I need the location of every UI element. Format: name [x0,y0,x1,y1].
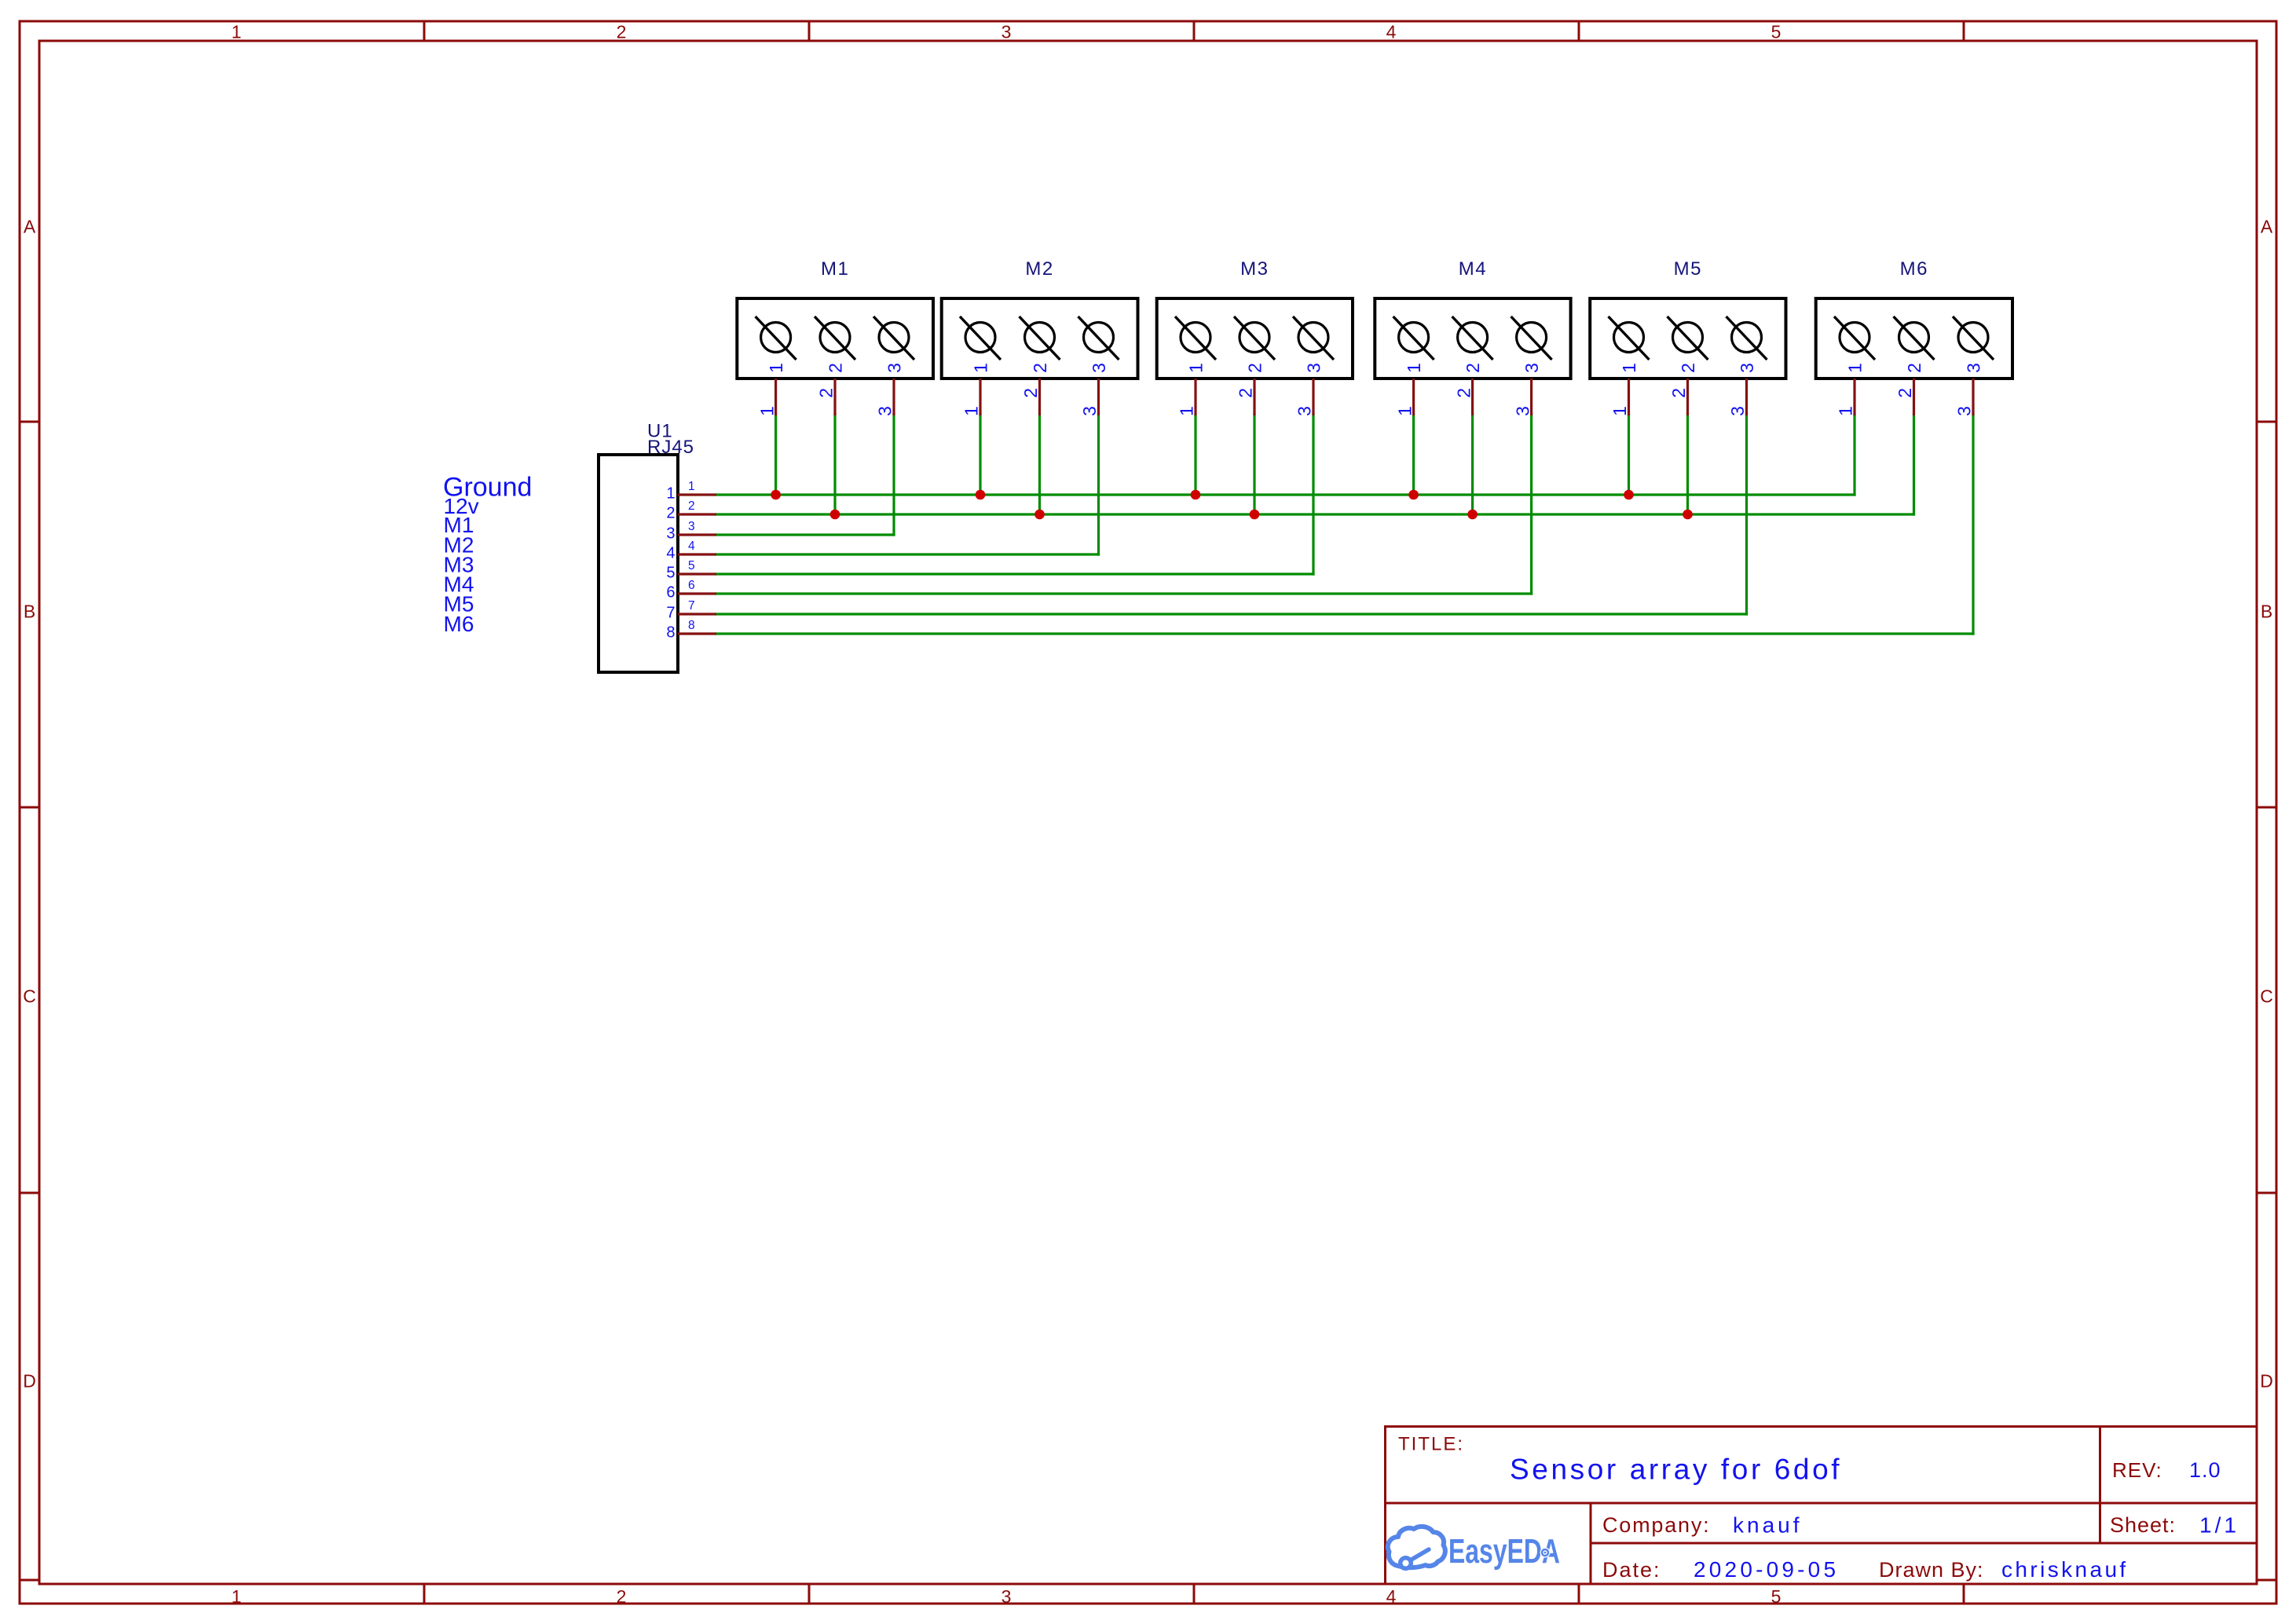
M1 pin 2 stub [833,379,836,415]
connector M3 body [1157,298,1353,379]
svg-text:chrisknauf: chrisknauf [2001,1557,2129,1582]
connector M6 body [1816,298,2012,379]
svg-text:1: 1 [232,22,242,42]
svg-text:3: 3 [1727,406,1748,416]
wire net M3 horizontal run [716,572,1313,575]
U1 pin 6 stub [678,592,716,594]
svg-text:3: 3 [884,363,904,373]
svg-text:7: 7 [666,605,675,622]
M3 pin 1 stub [1194,379,1196,415]
wire net 12v riser at M2 pin 2 [1038,415,1041,514]
wire net 12v riser at M6 pin 2 [1913,415,1915,514]
svg-text:5: 5 [1771,1586,1782,1607]
M1 pin 2 circle symbol [820,323,850,353]
M1 pin 3 circle symbol [879,323,909,353]
M4 pin 1 slash [1393,316,1434,360]
svg-text:M6: M6 [1900,258,1928,280]
junction on 12v net at M4 pin 2 [1467,510,1478,520]
svg-text:1: 1 [1609,406,1630,416]
M5 pin 3 slash [1727,316,1767,360]
U1 pin 2 stub [678,513,716,515]
M6 pin 3 slash [1953,316,1994,360]
svg-text:1.0: 1.0 [2189,1458,2221,1482]
svg-text:3: 3 [1954,406,1975,416]
svg-text:B: B [24,602,35,622]
svg-text:6: 6 [688,579,695,592]
svg-text:3: 3 [875,406,895,416]
wire net M1 horizontal run [716,533,894,536]
svg-text:2: 2 [688,499,695,513]
M1 pin 2 slash [815,316,855,360]
M5 pin 1 slash [1609,316,1650,360]
sheet column labels 1-5 bottom [232,1586,1782,1607]
svg-text:2: 2 [1668,388,1689,398]
M2 pin 1 slash [960,316,1001,360]
svg-text:REV:: REV: [2112,1458,2162,1482]
svg-text:3: 3 [1963,363,1983,373]
M1 pin 1 slash [756,316,796,360]
svg-text:Sensor array for 6dof: Sensor array for 6dof [1510,1454,1842,1486]
M6 pin 2 circle symbol [1899,323,1929,353]
M4 pin 2 stub [1471,379,1474,415]
M2 pin 3 stub [1097,379,1100,415]
svg-text:2: 2 [1020,388,1041,398]
svg-text:1: 1 [766,363,786,373]
wire net 12v riser at M4 pin 2 [1471,415,1474,514]
svg-text:7: 7 [688,599,695,613]
junction on Ground net at M4 pin 1 [1408,490,1419,500]
svg-text:2: 2 [1244,363,1265,373]
M3 pin 2 stub [1253,379,1255,415]
svg-text:3: 3 [1002,1586,1012,1607]
svg-text:3: 3 [666,525,675,543]
svg-text:1: 1 [1844,363,1865,373]
junction on Ground net at M5 pin 1 [1624,490,1634,500]
svg-text:5: 5 [1771,22,1782,42]
connector M2 body [942,298,1138,379]
svg-text:2: 2 [617,1586,627,1607]
svg-text:2: 2 [1030,363,1050,373]
svg-text:8: 8 [666,624,675,642]
EasyEDA logo cloud icon [1388,1527,1445,1568]
M6 pin 3 circle symbol [1958,323,1988,353]
sheet row tick marks [20,422,2276,1580]
wire net Ground riser at M4 pin 1 [1412,415,1415,495]
sheet column tick marks [424,21,1964,1604]
M6 pin 2 stub [1913,379,1915,415]
M5 pin 3 circle symbol [1732,323,1762,353]
svg-text:2: 2 [1895,388,1915,398]
svg-text:1: 1 [961,406,982,416]
svg-text:knauf: knauf [1733,1513,1803,1538]
wire net 12v riser at M5 pin 2 [1686,415,1689,514]
wire net M3 riser at M3 pin 3 [1312,415,1314,574]
svg-text:Drawn By:: Drawn By: [1879,1558,1984,1582]
svg-text:4: 4 [1386,1586,1397,1607]
title block border [1386,1427,2258,1585]
svg-text:3: 3 [1737,363,1757,373]
svg-text:5: 5 [688,559,695,572]
svg-text:Company:: Company: [1602,1513,1710,1537]
wire net Ground riser at M3 pin 1 [1194,415,1196,495]
M1 pin 1 circle symbol [761,323,791,353]
svg-text:3: 3 [1512,406,1532,416]
M2 pin 1 circle symbol [965,323,995,353]
M3 pin 3 stub [1312,379,1314,415]
svg-text:3: 3 [1079,406,1100,416]
M2 pin 3 circle symbol [1084,323,1114,353]
svg-text:B: B [2261,602,2272,622]
M2 pin 2 stub [1038,379,1041,415]
svg-text:1: 1 [1836,406,1856,416]
svg-text:M1: M1 [821,258,849,280]
M5 pin 1 stub [1628,379,1630,415]
wire net 12v riser at M1 pin 2 [833,415,836,514]
svg-text:1: 1 [1185,363,1206,373]
U1 pin 8 stub [678,632,716,635]
svg-text:A: A [2261,217,2273,237]
M1 pin 3 stub [892,379,895,415]
wire net M5 riser at M5 pin 3 [1745,415,1748,614]
M1 pin 3 slash [873,316,914,360]
svg-text:1/1: 1/1 [2199,1513,2239,1538]
M5 pin 3 stub [1745,379,1748,415]
M4 pin 1 stub [1412,379,1415,415]
M5 pin 1 circle symbol [1614,323,1644,353]
M4 pin 2 circle symbol [1458,323,1488,353]
M6 pin 1 circle symbol [1840,323,1869,353]
M5 pin 2 stub [1686,379,1689,415]
svg-text:3: 3 [1294,406,1315,416]
svg-text:C: C [23,986,36,1007]
svg-text:1: 1 [1394,406,1415,416]
svg-text:D: D [2260,1371,2273,1392]
wire net M2 riser at M2 pin 3 [1097,415,1100,554]
svg-text:M2: M2 [1025,258,1053,280]
M4 pin 1 circle symbol [1399,323,1429,353]
wire net 12v horizontal run [716,513,1914,515]
connector M1 body [737,298,933,379]
M2 pin 2 slash [1020,316,1060,360]
svg-text:2: 2 [617,22,627,42]
wire net Ground riser at M5 pin 1 [1628,415,1630,495]
wire net M6 horizontal run [716,632,1973,635]
svg-text:6: 6 [666,584,675,602]
svg-text:1: 1 [232,1586,242,1607]
connector U1 body [599,455,678,672]
svg-text:A: A [24,217,36,237]
M4 pin 3 stub [1530,379,1532,415]
wire net M1 riser at M1 pin 3 [892,415,895,535]
connector M4 body [1375,298,1570,379]
M2 pin 1 stub [979,379,981,415]
svg-text:1: 1 [688,480,695,493]
junction on Ground net at M3 pin 1 [1191,490,1201,500]
svg-text:1: 1 [1619,363,1639,373]
M3 pin 3 slash [1293,316,1334,360]
U1 pin 3 stub [678,533,716,536]
svg-text:3: 3 [688,520,695,533]
svg-text:3: 3 [1303,363,1324,373]
U1 pin 5 stub [678,572,716,575]
M3 pin 2 circle symbol [1240,323,1269,353]
M1 pin 1 stub [774,379,777,415]
EasyEDA logo text [1448,1532,1560,1571]
wire net Ground riser at M2 pin 1 [979,415,981,495]
M4 pin 2 slash [1452,316,1493,360]
svg-text:2: 2 [1453,388,1474,398]
svg-text:2: 2 [1463,363,1483,373]
svg-text:3: 3 [1522,363,1542,373]
wire net M4 horizontal run [716,592,1532,594]
wire net Ground horizontal run [716,493,1855,496]
wire net M4 riser at M4 pin 3 [1530,415,1532,594]
U1 pin 4 stub [678,553,716,555]
svg-text:2: 2 [1678,363,1698,373]
svg-text:2: 2 [825,363,845,373]
connector M5 body [1590,298,1785,379]
sheet row labels A-D right [2260,217,2273,1392]
svg-text:2: 2 [816,388,837,398]
junction on 12v net at M3 pin 2 [1250,510,1260,520]
wire net M5 horizontal run [716,613,1747,615]
svg-text:1: 1 [756,406,777,416]
U1 pin 7 stub [678,613,716,615]
wire net 12v riser at M3 pin 2 [1253,415,1255,514]
svg-text:1: 1 [970,363,991,373]
junction on 12v net at M5 pin 2 [1683,510,1693,520]
svg-text:C: C [2260,986,2273,1007]
svg-text:2: 2 [1236,388,1256,398]
M4 pin 3 circle symbol [1517,323,1547,353]
M3 pin 3 circle symbol [1298,323,1328,353]
svg-text:M4: M4 [1459,258,1487,280]
M3 pin 1 circle symbol [1181,323,1210,353]
svg-text:5: 5 [666,565,675,582]
svg-text:1: 1 [1177,406,1197,416]
svg-text:2020-09-05: 2020-09-05 [1694,1557,1839,1582]
svg-text:TITLE:: TITLE: [1398,1434,1464,1455]
svg-text:2: 2 [666,505,675,522]
M5 pin 2 circle symbol [1673,323,1703,353]
svg-text:8: 8 [688,619,695,632]
svg-text:D: D [23,1371,36,1392]
svg-text:M5: M5 [1674,258,1702,280]
svg-text:4: 4 [688,540,695,553]
svg-text:1: 1 [666,485,675,503]
junction on 12v net at M1 pin 2 [830,510,840,520]
sheet row labels A-D left [23,217,36,1392]
sheet column labels 1-5 top [232,22,1782,42]
junction on Ground net at M2 pin 1 [976,490,986,500]
svg-text:Sheet:: Sheet: [2110,1513,2176,1537]
svg-text:4: 4 [666,545,675,562]
M6 pin 3 stub [1972,379,1974,415]
M5 pin 2 slash [1668,316,1708,360]
svg-text:M6: M6 [444,612,474,636]
M4 pin 3 slash [1511,316,1552,360]
svg-text:1: 1 [1404,363,1424,373]
junction on Ground net at M1 pin 1 [771,490,781,500]
wire net M6 riser at M6 pin 3 [1972,415,1974,634]
M2 pin 2 circle symbol [1025,323,1055,353]
M6 pin 1 slash [1834,316,1875,360]
svg-text:3: 3 [1089,363,1109,373]
M3 pin 1 slash [1175,316,1216,360]
svg-text:2: 2 [1904,363,1924,373]
svg-text:3: 3 [1002,22,1012,42]
M3 pin 2 slash [1234,316,1275,360]
wire net Ground riser at M1 pin 1 [774,415,777,495]
M2 pin 3 slash [1078,316,1119,360]
wire net M2 horizontal run [716,553,1099,555]
svg-text:Date:: Date: [1602,1558,1661,1582]
junction on 12v net at M2 pin 2 [1034,510,1045,520]
M6 pin 2 slash [1894,316,1935,360]
svg-text:M3: M3 [1240,258,1269,280]
svg-text:4: 4 [1386,22,1397,42]
wire net Ground riser at M6 pin 1 [1853,415,1855,495]
M6 pin 1 stub [1853,379,1855,415]
U1 pin 1 stub [678,493,716,496]
